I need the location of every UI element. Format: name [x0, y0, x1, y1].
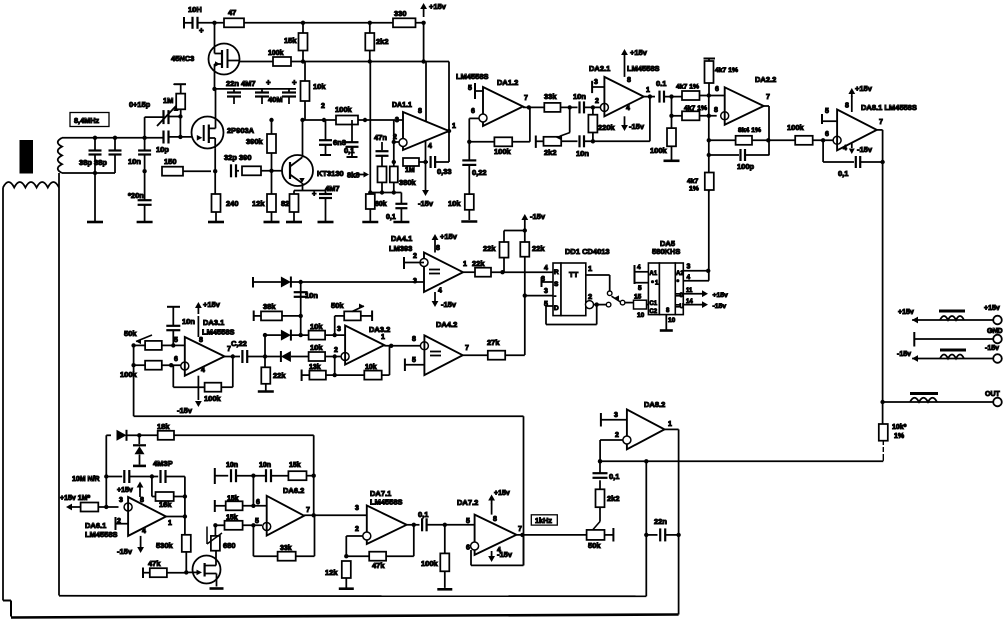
svg-text:+: + [312, 189, 317, 198]
svg-text:47k: 47k [372, 561, 385, 570]
svg-text:C2: C2 [649, 309, 657, 315]
svg-text:4: 4 [637, 264, 641, 271]
svg-text:+15v: +15v [440, 232, 458, 241]
svg-text:4: 4 [843, 145, 847, 152]
svg-text:DA8.2: DA8.2 [644, 400, 665, 409]
svg-text:16k: 16k [159, 500, 172, 509]
svg-text:1%: 1% [689, 186, 699, 193]
svg-text:8,4MHz: 8,4MHz [74, 116, 99, 125]
svg-text:18k: 18k [157, 422, 170, 431]
svg-text:100p: 100p [737, 162, 755, 171]
svg-text:-15v: -15v [530, 212, 546, 221]
svg-text:LM4558S: LM4558S [456, 72, 489, 81]
svg-text:5: 5 [412, 357, 416, 364]
svg-text:4k7 1%: 4k7 1% [684, 105, 707, 112]
svg-text:22k: 22k [273, 371, 286, 380]
svg-text:10n: 10n [226, 462, 238, 469]
svg-text:33k: 33k [280, 545, 292, 552]
svg-text:+15v: +15v [494, 490, 510, 497]
svg-text:5: 5 [255, 518, 259, 525]
svg-text:7: 7 [465, 345, 469, 352]
svg-text:LM4558S: LM4558S [202, 328, 235, 337]
svg-text:=U: =U [676, 304, 684, 310]
svg-text:6: 6 [825, 131, 829, 138]
svg-text:4: 4 [687, 274, 691, 281]
svg-text:3: 3 [395, 117, 399, 124]
svg-text:10k: 10k [310, 343, 323, 352]
svg-text:1%: 1% [894, 433, 905, 440]
svg-text:10H: 10H [188, 5, 202, 14]
svg-text:10: 10 [668, 317, 676, 324]
svg-text:DA3.2: DA3.2 [369, 325, 390, 334]
svg-text:0,1: 0,1 [344, 146, 354, 155]
svg-text:C1: C1 [649, 301, 657, 307]
svg-text:15k: 15k [289, 462, 301, 469]
svg-text:2: 2 [355, 526, 359, 533]
svg-text:4: 4 [428, 143, 432, 150]
svg-text:1: 1 [463, 261, 467, 268]
svg-text:47n: 47n [374, 133, 387, 142]
svg-text:0,1: 0,1 [609, 472, 619, 481]
svg-text:0,1: 0,1 [386, 214, 396, 221]
svg-text:1M: 1M [163, 96, 173, 105]
svg-text:2: 2 [615, 432, 619, 439]
svg-text:-: - [554, 293, 556, 300]
svg-text:10k: 10k [310, 322, 323, 331]
svg-text:8: 8 [627, 77, 631, 84]
svg-text:-15v: -15v [441, 300, 457, 309]
svg-text:2P903A: 2P903A [227, 126, 255, 135]
svg-text:50k: 50k [124, 329, 137, 338]
svg-text:+15v: +15v [203, 300, 221, 309]
svg-text:2: 2 [588, 292, 592, 301]
svg-text:22n 4M7: 22n 4M7 [226, 79, 256, 88]
svg-text:+15v: +15v [713, 292, 729, 299]
svg-text:8: 8 [493, 516, 497, 523]
svg-text:6: 6 [256, 499, 260, 506]
svg-text:240: 240 [226, 199, 239, 208]
svg-text:10k*: 10k* [892, 424, 907, 431]
svg-text:22k: 22k [483, 244, 496, 253]
svg-text:2k2: 2k2 [544, 148, 557, 157]
svg-text:+: + [292, 78, 297, 87]
svg-text:1: 1 [646, 87, 650, 94]
svg-text:DA1.1: DA1.1 [392, 102, 412, 109]
svg-text:1M: 1M [405, 167, 415, 174]
svg-text:82: 82 [281, 199, 289, 208]
svg-text:7: 7 [766, 94, 770, 101]
svg-text:DA6.1: DA6.1 [85, 521, 106, 530]
svg-text:4: 4 [201, 367, 205, 374]
svg-text:8: 8 [714, 107, 718, 114]
svg-text:C,22: C,22 [231, 339, 247, 348]
svg-text:4k7: 4k7 [687, 178, 699, 185]
svg-text:+15v: +15v [898, 309, 914, 316]
svg-text:11: 11 [686, 288, 693, 294]
svg-text:15: 15 [634, 294, 642, 301]
svg-text:15k: 15k [284, 36, 297, 45]
svg-text:8: 8 [412, 336, 416, 343]
svg-text:+15v: +15v [984, 305, 1000, 312]
svg-text:A1: A1 [649, 271, 657, 277]
svg-text:6: 6 [715, 86, 719, 93]
svg-text:47k: 47k [148, 559, 161, 568]
svg-text:4k7 1%: 4k7 1% [676, 84, 699, 91]
svg-text:+: + [199, 26, 204, 35]
svg-text:1kHz: 1kHz [535, 516, 552, 525]
svg-text:*20n: *20n [128, 191, 144, 200]
svg-text:-15v: -15v [857, 145, 873, 154]
svg-text:2k2: 2k2 [607, 494, 620, 503]
svg-text:10n: 10n [128, 157, 141, 166]
svg-text:1: 1 [381, 334, 385, 341]
svg-text:R: R [554, 269, 559, 276]
svg-text:DA4.2: DA4.2 [436, 320, 457, 329]
svg-text:3: 3 [614, 412, 618, 419]
svg-text:13k: 13k [309, 364, 321, 371]
svg-text:2: 2 [595, 98, 599, 105]
svg-text:60k: 60k [375, 201, 387, 208]
svg-text:390k: 390k [246, 137, 264, 146]
svg-text:2: 2 [321, 103, 325, 110]
svg-text:150: 150 [164, 157, 177, 166]
svg-text:-15v: -15v [497, 550, 513, 559]
svg-text:0÷15p: 0÷15p [129, 100, 151, 109]
svg-text:50k: 50k [331, 301, 344, 310]
svg-text:4M7: 4M7 [325, 184, 340, 193]
svg-text:0.1: 0.1 [656, 79, 666, 88]
svg-text:-15v: -15v [177, 406, 193, 415]
svg-text:6: 6 [471, 108, 475, 115]
svg-text:4: 4 [626, 105, 630, 112]
svg-text:8k8: 8k8 [347, 171, 360, 180]
svg-text:DA1.2: DA1.2 [497, 78, 518, 87]
svg-text:7: 7 [518, 526, 522, 533]
svg-text:DA2.1: DA2.1 [589, 64, 610, 73]
svg-text:-15v: -15v [713, 303, 727, 310]
svg-text:3: 3 [337, 326, 341, 333]
svg-text:10n: 10n [259, 462, 271, 469]
svg-text:7: 7 [879, 119, 883, 126]
svg-text:2: 2 [334, 347, 338, 354]
svg-text:0,22: 0,22 [472, 168, 487, 177]
svg-text:0,1: 0,1 [838, 169, 848, 178]
svg-text:-15v: -15v [117, 547, 133, 556]
svg-text:+: + [266, 78, 271, 87]
svg-text:22k: 22k [532, 244, 545, 253]
svg-text:10n: 10n [182, 317, 195, 326]
svg-text:12k: 12k [252, 199, 265, 208]
svg-text:4k7 1%: 4k7 1% [715, 67, 738, 74]
svg-text:DA6.2: DA6.2 [283, 486, 304, 495]
svg-text:10n: 10n [573, 92, 586, 101]
svg-text:100k: 100k [494, 147, 512, 156]
svg-text:12k: 12k [325, 568, 338, 577]
svg-text:S: S [554, 281, 559, 288]
svg-text:14: 14 [686, 299, 693, 305]
svg-text:38k: 38k [263, 302, 276, 311]
svg-text:1: 1 [588, 264, 592, 273]
svg-text:32p 390: 32p 390 [224, 153, 252, 162]
svg-text:0,1: 0,1 [418, 510, 428, 519]
svg-text:LM4558S: LM4558S [627, 64, 660, 73]
svg-text:5: 5 [825, 108, 829, 115]
svg-text:D: D [554, 305, 559, 312]
svg-text:10n: 10n [576, 149, 589, 158]
svg-text:1: 1 [668, 421, 672, 428]
svg-text:100k: 100k [421, 559, 439, 568]
svg-text:3: 3 [355, 505, 359, 512]
svg-text:10k: 10k [313, 82, 326, 91]
svg-text:27k: 27k [487, 338, 500, 347]
svg-text:380k: 380k [399, 178, 417, 187]
svg-text:45NC3: 45NC3 [171, 54, 194, 63]
svg-text:LM4558S: LM4558S [370, 498, 403, 507]
svg-text:3: 3 [687, 264, 691, 271]
svg-text:5: 5 [638, 285, 642, 292]
svg-text:5: 5 [468, 85, 472, 92]
svg-text:5: 5 [174, 337, 178, 344]
svg-text:38p 38p: 38p 38p [79, 158, 107, 167]
svg-text:10: 10 [637, 312, 645, 319]
svg-text:TT: TT [569, 270, 579, 279]
svg-text:+15v: +15v [630, 48, 648, 57]
svg-text:LM393: LM393 [389, 244, 412, 253]
svg-text:+15v: +15v [429, 2, 447, 11]
svg-text:LM4558S: LM4558S [85, 530, 118, 539]
svg-text:8: 8 [845, 103, 849, 110]
svg-text:A2: A2 [676, 271, 684, 277]
svg-text:8: 8 [140, 497, 144, 504]
svg-text:5: 5 [466, 518, 470, 525]
svg-text:10k: 10k [448, 199, 461, 208]
svg-text:2k2: 2k2 [376, 37, 389, 46]
svg-text:DA2.2: DA2.2 [755, 75, 776, 84]
svg-text:1: 1 [452, 123, 456, 130]
svg-text:33k: 33k [544, 92, 557, 101]
svg-text:-15v: -15v [418, 199, 434, 208]
svg-text:100k: 100k [204, 394, 222, 403]
svg-text:8: 8 [418, 108, 422, 115]
svg-text:DA7.2: DA7.2 [457, 498, 478, 507]
svg-text:6: 6 [466, 545, 470, 552]
svg-text:KT3130: KT3130 [317, 169, 344, 178]
svg-text:100k: 100k [650, 146, 668, 155]
svg-text:3: 3 [594, 79, 598, 86]
svg-text:0,33: 0,33 [437, 167, 452, 176]
svg-text:10k: 10k [365, 364, 377, 371]
svg-text:220k: 220k [598, 123, 616, 132]
svg-text:100k: 100k [335, 105, 353, 114]
svg-text:+15v: +15v [117, 487, 133, 494]
svg-text:22k: 22k [472, 259, 485, 268]
svg-text:330: 330 [394, 9, 407, 18]
svg-text:DA4.1: DA4.1 [391, 234, 412, 243]
svg-text:47: 47 [228, 8, 236, 17]
svg-text:4: 4 [544, 265, 548, 272]
svg-text:-15v: -15v [985, 345, 999, 352]
svg-text:50k: 50k [588, 541, 601, 550]
svg-text:100k: 100k [120, 370, 138, 379]
svg-text:15k: 15k [226, 515, 238, 522]
svg-text:100k: 100k [268, 50, 284, 57]
svg-text:10p: 10p [156, 145, 169, 154]
svg-text:7: 7 [524, 95, 528, 102]
svg-text:15k: 15k [227, 496, 239, 503]
svg-text:3: 3 [119, 497, 123, 504]
svg-text:DD1 CD4013: DD1 CD4013 [565, 247, 610, 256]
svg-text:8k4 1%: 8k4 1% [738, 127, 761, 134]
svg-text:DA3.1: DA3.1 [203, 318, 224, 327]
svg-text:=0: =0 [676, 293, 684, 299]
svg-text:4: 4 [438, 288, 442, 295]
svg-text:40M: 40M [268, 95, 283, 104]
svg-text:6: 6 [174, 356, 178, 363]
svg-text:100k: 100k [787, 123, 805, 132]
svg-text:7: 7 [306, 507, 310, 514]
svg-text:OUT: OUT [985, 391, 1001, 398]
svg-text:1: 1 [168, 520, 172, 527]
svg-text:530k: 530k [156, 541, 174, 550]
svg-text:8: 8 [436, 245, 440, 252]
svg-text:8: 8 [199, 337, 203, 344]
svg-text:3: 3 [544, 288, 548, 295]
svg-text:GND: GND [987, 328, 1003, 335]
svg-text:-15v: -15v [897, 351, 911, 358]
svg-text:10M N/R: 10M N/R [72, 476, 100, 483]
svg-text:10n: 10n [305, 291, 318, 300]
svg-text:680: 680 [223, 541, 236, 550]
svg-text:2: 2 [413, 253, 417, 260]
svg-text:+15v: +15v [855, 84, 873, 93]
svg-text:4M3P: 4M3P [153, 459, 173, 468]
svg-text:+15v 1M*: +15v 1M* [60, 495, 90, 502]
svg-text:-15v: -15v [629, 122, 645, 131]
svg-text:DA8.1 LM4558S: DA8.1 LM4558S [861, 103, 917, 112]
svg-text:22n: 22n [654, 517, 667, 526]
svg-text:580KHS: 580KHS [652, 247, 680, 256]
svg-text:4: 4 [142, 528, 146, 535]
